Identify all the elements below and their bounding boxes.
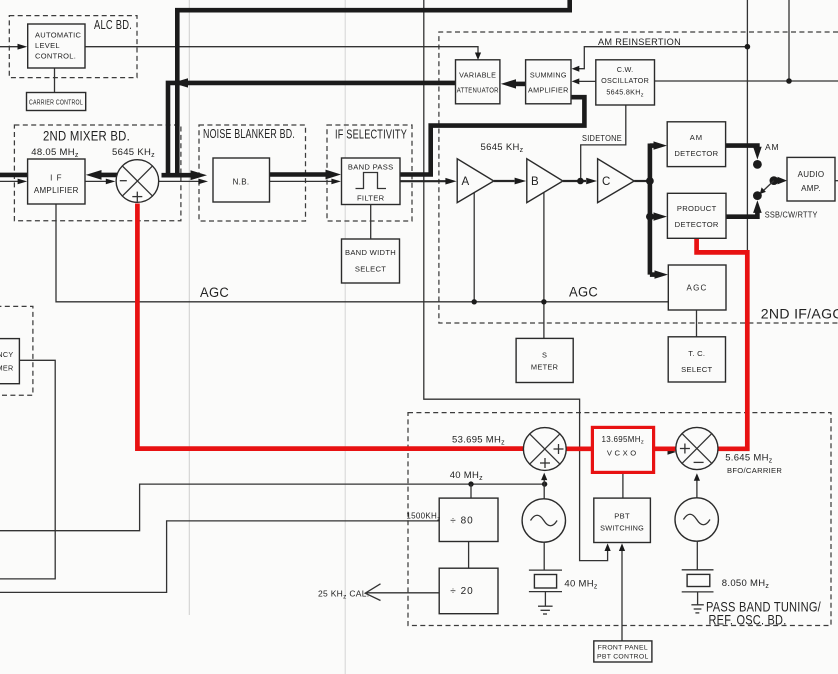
wire front panel PBT control to PBT switching [619,543,625,641]
svg-text:40 MHz: 40 MHz [450,470,483,482]
filter symbol inside band pass filter [356,173,387,189]
svg-text:FILTER: FILTER [357,194,385,203]
svg-text:NOISE BLANKER BD.: NOISE BLANKER BD. [203,126,295,141]
svg-text:5645 KHz: 5645 KHz [112,147,155,159]
box divider 80 [439,498,498,541]
thick line band pass filter to summing bus [400,172,433,177]
svg-text:SIDETONE: SIDETONE [582,133,622,143]
svg-text:AM REINSERTION: AM REINSERTION [598,37,681,48]
svg-text:SWITCHING: SWITCHING [600,524,644,533]
dashed board box 2ND MIXER BD. [14,125,181,221]
svg-text:AMP.: AMP. [801,184,821,193]
box product detector [667,193,726,238]
svg-text:MER: MER [0,364,14,373]
node 40MHz junction divider [468,481,473,486]
box S meter [516,338,573,382]
thick line IF amplifier to mixer (arrow left) [86,170,117,180]
svg-text:ATTENUATOR: ATTENUATOR [457,86,499,95]
wire ALC to carrier control [54,68,56,93]
box automatic level control [28,24,85,68]
box IF amplifier [28,159,85,204]
dashed board box 2ND IF/AGC (open right side) [439,32,838,323]
box band width select [342,239,400,283]
svg-text:SUMMING: SUMMING [530,71,567,80]
mixer 53.695 MHz [523,428,566,471]
oscillator 8.050 MHz [675,498,718,541]
box variable attenuator [456,60,500,104]
thick detector feed bus [646,141,668,278]
svg-text:8.050 MHz: 8.050 MHz [722,578,770,590]
node carrier junction [745,44,751,50]
amplifier C [598,159,635,203]
svg-text:ALC BD.: ALC BD. [94,17,132,32]
wire CW oscillator to summing amp [572,78,596,84]
fold artifact line middle [344,0,346,674]
svg-text:C.W.: C.W. [617,65,634,74]
dashed board box PASS BAND TUNING/REF OSC BD [408,413,831,626]
wire 25KHz cal output with open arrow [365,584,439,601]
box C.W. oscillator U [596,60,655,105]
svg-text:OSCILLATOR: OSCILLATOR [601,76,649,85]
thick transmit bus top [177,0,569,175]
svg-text:2ND MIXER BD.: 2ND MIXER BD. [43,129,130,144]
wire 1500KHz line to divider 80 [0,521,439,593]
svg-text:÷ 80: ÷ 80 [450,516,473,527]
wire BFO/carrier vertical [746,0,748,252]
mixer 2nd IF [116,160,159,203]
svg-text:CARRIER CONTROL: CARRIER CONTROL [29,99,83,106]
svg-text:SSB/CW/RTTY: SSB/CW/RTTY [765,210,818,220]
svg-text:T. C.: T. C. [688,349,705,358]
svg-text:FRONT PANEL: FRONT PANEL [598,645,648,652]
box AM detector [667,122,725,167]
wire amp A to AGC [473,192,475,302]
wire VCXO to PBT switching [622,472,624,498]
node AGC junction A [472,299,477,304]
svg-text:AMPLIFIER: AMPLIFIER [528,86,569,95]
svg-text:VARIABLE: VARIABLE [459,71,496,80]
ground 8.050 MHz crystal [691,605,703,613]
wire junction to divider 80 [470,484,472,498]
thick product detector output to switch [726,200,762,217]
thick arrow summing amp to variable attenuator [501,79,526,88]
wire AGC feedback line [56,204,668,302]
svg-text:SELECT: SELECT [681,365,712,374]
svg-text:PBT CONTROL: PBT CONTROL [597,654,649,661]
wire long PBT control line from top [424,0,611,561]
thick summing amp output bus [431,97,585,176]
svg-text:5.645 MHz: 5.645 MHz [725,453,773,465]
dashed board box ALC BD. [9,16,137,78]
wire ALC input/output y=46.7 [0,44,481,60]
thick line noise blanker to band pass filter [270,170,342,180]
wire AM reinsertion carrier to summing amp [572,47,748,72]
svg-text:BAND WIDTH: BAND WIDTH [345,248,396,257]
wire CW oscillator output right [655,80,838,82]
svg-text:AMPLIFIER: AMPLIFIER [34,186,79,195]
svg-text:A: A [462,176,470,188]
box frequency (cut at left edge) [0,339,19,384]
box summing amplifier [526,60,571,104]
svg-text:AGC: AGC [687,284,708,293]
dashed board box NOISE BLANKER BD. [199,125,306,221]
wire divider 80 to divider 20 [468,542,470,569]
svg-text:÷ 20: ÷ 20 [450,586,473,597]
svg-text:N.B.: N.B. [233,178,250,187]
wire audio amp output stub [835,180,838,182]
wire AGC box to TC select [696,310,698,337]
svg-text:48.05 MHz: 48.05 MHz [31,147,79,159]
wire 40MHz osc to mixer arrow [541,473,547,499]
node 40MHz junction oscillator [542,481,547,486]
box carrier control [27,93,86,111]
svg-text:BFO/CARRIER: BFO/CARRIER [727,466,782,475]
thick carrier line from variable attenuator [168,78,456,176]
svg-text:DETECTOR: DETECTOR [674,149,718,158]
box audio amp [787,157,835,201]
wire 40 MHz distribution [0,484,545,531]
box divider 20 [439,568,498,614]
wire amp B to amp C with sidetone node [563,178,597,185]
amplifier B [527,159,563,203]
oscillator 40 MHz [522,499,565,542]
svg-text:LEVEL: LEVEL [35,41,60,50]
wire sidetone from CW oscillator to amp C input [581,105,626,181]
box noise blanker N.B. [213,158,270,202]
dashed board box IF SELECTIVITY [327,125,412,221]
svg-text:S: S [542,351,547,360]
node AGC junction B [541,299,546,304]
crystal 40 MHz [529,542,562,606]
main receive line segments y=181 [0,178,457,185]
fold artifact line left [188,0,190,615]
svg-text:DETECTOR: DETECTOR [675,220,719,229]
crystal 8.050 MHz [682,541,714,604]
mixer BFO [676,427,718,469]
box PBT switching [594,498,651,542]
svg-text:SELECT: SELECT [355,265,386,274]
box T.C. select [668,337,725,382]
svg-text:I F: I F [50,174,62,183]
switch mode selector [753,160,787,200]
svg-text:AGC: AGC [569,285,598,300]
box band pass filter [342,158,401,205]
ground 40 MHz crystal [538,606,553,614]
svg-text:B: B [531,176,539,188]
svg-text:2ND IF/AGC: 2ND IF/AGC [761,306,838,322]
svg-text:40 MHz: 40 MHz [564,579,597,591]
wire frequency box line [0,360,55,579]
svg-text:AM: AM [765,142,779,152]
thick line buses to noise blanker [162,170,208,180]
thick AM detector output to switch [726,146,762,160]
svg-text:IF SELECTIVITY: IF SELECTIVITY [335,126,407,141]
red signal path BFO/carrier [137,204,747,455]
dashed board box frequency (cut at left edge) [0,306,33,395]
svg-text:53.695 MHz: 53.695 MHz [452,435,505,447]
wire 8.05MHz osc to BFO mixer arrow [694,473,700,498]
svg-text:AM: AM [690,133,703,142]
svg-text:C: C [602,176,611,188]
wire amp C output to detector bus [634,180,650,182]
svg-text:BAND PASS: BAND PASS [348,163,394,172]
box front panel PBT control [594,641,652,662]
svg-text:5645 KHz: 5645 KHz [481,142,524,154]
svg-text:VCXO: VCXO [607,449,639,458]
svg-text:PBT: PBT [614,512,630,521]
svg-text:AGC: AGC [200,285,229,300]
node CW line junction [786,78,792,84]
wire band pass filter to band width select [370,205,372,240]
svg-text:PRODUCT: PRODUCT [677,204,717,213]
svg-text:CONTROL.: CONTROL. [35,52,76,61]
wire amp A to amp B [494,178,526,185]
wire amp B to S meter [543,192,545,338]
amplifier A [457,159,494,203]
thick line into IF amplifier [0,173,28,178]
svg-text:NCY: NCY [0,350,14,359]
svg-text:METER: METER [531,363,558,372]
svg-text:REF. OSC. BD.: REF. OSC. BD. [709,612,787,628]
wire vertical at right top [788,0,790,81]
svg-text:AUTOMATIC: AUTOMATIC [35,31,81,40]
box AGC [668,265,726,310]
box VCXO highlighted red [592,427,653,472]
svg-text:AUDIO: AUDIO [798,170,825,179]
